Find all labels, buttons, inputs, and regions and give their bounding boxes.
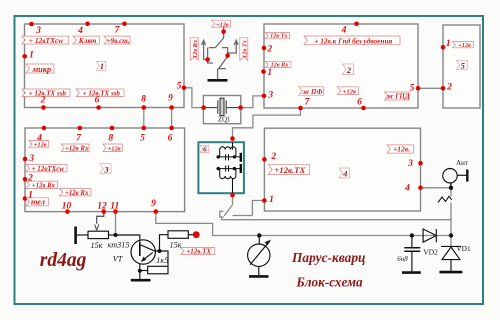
svg-text:2: 2	[40, 96, 46, 106]
svg-text:+12в Rx: +12в Rx	[32, 183, 56, 190]
svg-text:Парус-кварц: Парус-кварц	[291, 250, 366, 265]
switch +12v node dot	[221, 29, 226, 34]
svg-text:3: 3	[267, 90, 273, 100]
block3 pin 2 dot	[23, 177, 28, 182]
svg-text:12в Tx: 12в Tx	[270, 33, 287, 40]
svg-text:15к: 15к	[169, 240, 181, 249]
block2 pin 7 dot	[298, 106, 303, 111]
ZQ1 left node dot	[201, 105, 206, 110]
block1 pin 7 dot	[122, 22, 127, 27]
svg-text:2: 2	[270, 152, 276, 162]
svg-text:VD2: VD2	[423, 248, 438, 257]
meter stem top	[258, 236, 260, 245]
svg-text:5: 5	[461, 60, 466, 70]
transistor VT emitter stroke	[142, 252, 153, 261]
block4 pin 4 dot	[418, 186, 423, 191]
node emitter junction	[138, 269, 142, 273]
filter tank1 inductor L1	[220, 147, 236, 153]
meter ground bar	[249, 275, 269, 278]
svg-text:3: 3	[407, 159, 413, 169]
filter tank1 capacitor C1	[226, 154, 229, 160]
net label 12vTx rotated (switch right)	[240, 38, 248, 61]
svg-text:5: 5	[177, 82, 182, 92]
R1 left lead	[77, 234, 89, 236]
block6 top node dot	[230, 136, 235, 141]
diode VD1 cathode bar	[441, 245, 461, 247]
flag 2 (block2 number)	[343, 64, 354, 75]
block3 pin 10 dot	[65, 209, 70, 214]
net label +12v.TX (block4 pin2)	[268, 165, 309, 175]
R3 1k5 left lead	[140, 270, 148, 272]
svg-text:6: 6	[95, 96, 100, 106]
block3 pin 1 dot	[23, 196, 28, 201]
wire collector to R2	[160, 235, 169, 251]
svg-text:+ 12в.TX ssb: + 12в.TX ssb	[29, 89, 67, 97]
block3 pin 7 dot	[78, 126, 83, 131]
svg-text:ZQ1: ZQ1	[218, 117, 230, 124]
block3 pin 5 dot	[142, 126, 147, 131]
svg-text:3: 3	[35, 26, 41, 36]
net label zh PF (block2 pin7)	[299, 87, 324, 95]
flag 4 (block4 number)	[339, 168, 350, 178]
meter needle arrowhead	[265, 240, 271, 245]
block 2	[264, 24, 418, 108]
crystal ZQ1 body	[220, 98, 224, 115]
net label 12vRx rotated (switch left)	[190, 38, 198, 61]
relay switch S1 right connector arrow	[228, 40, 239, 53]
relay switch S1 right bracket	[222, 48, 228, 56]
filter tank1 bottom rail	[216, 156, 237, 158]
diode VD1 triangle	[442, 247, 460, 260]
net label +12vRx (block3 pin2)	[26, 181, 57, 188]
block1 pin 4 dot	[85, 22, 90, 27]
crystal ZQ1 left plate	[217, 100, 219, 114]
antenna stem down to VD1	[450, 183, 452, 246]
block 4	[264, 128, 420, 211]
diode VD2 cathode bar	[435, 229, 437, 242]
net label +12v.TXssb a (block1 pin2)	[22, 89, 70, 97]
svg-text:1: 1	[28, 191, 33, 201]
resistor R2 15k	[168, 231, 188, 239]
svg-text:кт315: кт315	[108, 241, 130, 250]
relay switch S1 blade 1	[215, 38, 223, 48]
wire ZQ1 right to block2 pin3	[241, 96, 264, 108]
svg-text:1к5: 1к5	[156, 256, 168, 265]
filter tank2 inductor L2	[220, 173, 236, 179]
block2 pin 5 dot	[416, 86, 421, 91]
filter tank2 leads	[220, 169, 236, 194]
svg-text:6: 6	[168, 134, 173, 144]
svg-text:2: 2	[446, 83, 452, 93]
net label +12v.TXssb b (block1 pin6)	[76, 89, 124, 97]
net label +12vTXcw (block3 pin3)	[26, 164, 67, 172]
ZQ1 right node dot	[238, 105, 243, 110]
block2 pin 3 dot	[262, 94, 267, 99]
transistor VT collector stroke	[140, 245, 160, 252]
filter node dot b	[233, 155, 236, 158]
svg-text:+ 12вTXcw: + 12вTXcw	[32, 165, 65, 173]
svg-text:Ключ: Ключ	[78, 37, 97, 45]
filter tank1 tap bar	[240, 153, 242, 162]
block1 pin 9 dot	[169, 105, 174, 110]
+12v TX big node dot	[193, 231, 200, 238]
relay switch S1 stem	[223, 28, 225, 39]
filter tank1 tap lead	[238, 156, 241, 158]
svg-text:15к: 15к	[90, 241, 102, 250]
wire pin11 down to base junction	[115, 212, 117, 235]
potentiometer wiper arrow	[95, 225, 99, 231]
net label +9v.st (block1 pin7)	[104, 36, 130, 44]
svg-text:4: 4	[404, 183, 410, 193]
svg-text:+12в Rx: +12в Rx	[65, 190, 89, 197]
svg-text:+ 12в.TX ssb: + 12в.TX ssb	[83, 89, 121, 97]
transistor VT emitter arrowhead	[141, 257, 146, 262]
svg-text:+ 12в.к Гпд без удвоения: + 12в.к Гпд без удвоения	[314, 36, 392, 45]
diode VD1 ground stem	[450, 260, 452, 271]
relay switch S1 ground stem	[217, 69, 219, 79]
crystal ZQ1 left lead	[204, 107, 217, 109]
svg-text:12в Rx: 12в Rx	[271, 61, 289, 68]
emitter ground bar	[131, 279, 151, 282]
terminal bar left of R1	[74, 227, 77, 245]
svg-text:6: 6	[357, 97, 362, 107]
svg-text:+9в.ст.: +9в.ст.	[107, 37, 130, 45]
antenna switch blade	[224, 205, 232, 216]
svg-text:+12в Rx: +12в Rx	[65, 146, 89, 153]
wire R3 to collector node	[160, 251, 169, 266]
svg-text:8: 8	[141, 95, 146, 105]
svg-text:6: 6	[203, 145, 207, 154]
svg-text:2: 2	[266, 45, 272, 55]
block1 pin 6 dot	[96, 105, 101, 110]
filter node dot c	[217, 167, 220, 170]
wire block1 pin5 to ZQ1 left	[184, 88, 203, 108]
filter tank2 capacitor C2	[226, 165, 229, 171]
transistor VT base bar	[139, 242, 141, 256]
block 5	[443, 25, 480, 108]
net label +12v (switch)	[212, 20, 231, 27]
base lead wire	[116, 235, 140, 242]
diode VD1 ground bar	[439, 271, 462, 274]
svg-text:11: 11	[110, 202, 119, 212]
svg-text:+12в: +12в	[343, 88, 356, 95]
ZQ1 box	[203, 96, 240, 124]
relay switch S1 blade 2	[219, 57, 228, 69]
node VD1 junction	[449, 233, 453, 237]
net label +12v (block2 pin6)	[337, 87, 358, 95]
filter node dot a	[217, 155, 220, 158]
svg-text:12в Rx: 12в Rx	[192, 39, 199, 58]
flag 5 (block5 number)	[456, 60, 467, 69]
svg-text:rd4ag: rd4ag	[40, 250, 87, 271]
resistor R3 1k5	[148, 266, 168, 274]
meter needle	[250, 242, 269, 265]
capacitor C3 6n8 stem top	[411, 236, 413, 248]
block5 pin 2 dot	[441, 86, 446, 91]
wire block2 pin7 to filter block6 top	[233, 108, 301, 142]
wire block1 pin8 to block3 pin5	[143, 108, 145, 129]
meter ground stem	[258, 266, 260, 275]
net label Kluch (block1 pin4)	[73, 36, 99, 44]
antenna circle	[443, 169, 457, 183]
block2 pin 2 dot	[262, 46, 267, 51]
filter tank2 tap lead	[238, 168, 241, 170]
svg-text:VT: VT	[113, 255, 124, 264]
svg-text:6н8: 6н8	[397, 255, 408, 263]
block3 pin 11 dot	[113, 209, 118, 214]
net label +12v (block3 pin4)	[29, 140, 48, 147]
block1 pin 3 dot	[29, 22, 34, 27]
filter node dot d	[233, 167, 236, 170]
net label zh GPD (block2 pin5)	[385, 92, 410, 100]
block1 pin 2 dot	[41, 105, 46, 110]
filter tank2 top rail	[216, 168, 237, 170]
svg-text:2: 2	[346, 65, 352, 75]
block3 pin 6 dot	[169, 126, 174, 131]
svg-text:VD1: VD1	[456, 244, 471, 253]
net label +12v (block3 pin8)	[103, 144, 122, 152]
wire block6 bottom to antenna switch blade	[232, 193, 234, 205]
net label tel (block3 pin1)	[26, 198, 48, 206]
node antenna junction	[449, 186, 453, 190]
net label +12vTXcw (block1 pin3)	[22, 36, 69, 44]
svg-text:5: 5	[140, 134, 145, 144]
svg-text:микр: микр	[31, 65, 51, 74]
emitter ground stem	[139, 271, 141, 279]
flag 1 (block1 number)	[96, 61, 106, 70]
crystal ZQ1 right lead	[227, 107, 241, 109]
resistor R1 15k	[88, 231, 109, 238]
flag 3 (block3 number)	[100, 164, 111, 174]
block 6 (bandpass filter box, teal)	[198, 142, 244, 193]
block5 pin 1 dot	[441, 45, 446, 50]
svg-text:10: 10	[62, 202, 72, 212]
block3 pin 3 dot	[23, 157, 28, 162]
net label 12vTx (block2 pin2)	[265, 33, 289, 39]
block1 pin 1 dot	[22, 54, 27, 59]
relay switch S1 left connector arrow	[202, 40, 208, 59]
svg-text:+12в: +12в	[458, 42, 471, 49]
transistor VT circle	[131, 240, 155, 264]
wire block2 pin5 to block5 pin2	[418, 87, 443, 89]
svg-text:3: 3	[28, 154, 34, 164]
node collector junction	[158, 249, 162, 253]
svg-text:+12в: +12в	[216, 21, 229, 28]
svg-text:9: 9	[168, 94, 173, 104]
wire block4 pin4 to antenna stem	[421, 187, 452, 189]
svg-text:Блок-схема: Блок-схема	[295, 275, 363, 290]
svg-text:1: 1	[100, 61, 104, 71]
svg-text:ж ГПД: ж ГПД	[387, 93, 410, 101]
wire switch to antenna line	[222, 217, 452, 220]
svg-text:тел: тел	[31, 198, 45, 207]
wire block4 pin1 to switch contact	[252, 201, 264, 216]
wire block3 pin9 to meter line	[156, 212, 451, 236]
block2 pin 1 dot	[261, 69, 266, 74]
svg-text:5: 5	[410, 84, 415, 94]
capacitor C3 stem bottom	[411, 252, 413, 272]
net label +12v.TX (bottom node)	[181, 248, 215, 255]
svg-text:+12в.TX: +12в.TX	[274, 165, 306, 175]
block4 pin 1 dot	[262, 198, 267, 203]
capacitor C3 plates	[404, 248, 420, 251]
block3 pin 8 dot	[110, 126, 115, 131]
net label +12v k Gpd bez udvoeniya (block2 pin4)	[304, 36, 400, 45]
svg-text:ж ПФ: ж ПФ	[303, 88, 323, 96]
svg-text:+12в.TX: +12в.TX	[186, 248, 211, 256]
svg-text:12: 12	[97, 202, 107, 212]
svg-text:4: 4	[341, 26, 347, 36]
svg-text:+12в: +12в	[108, 145, 121, 152]
antenna circle stem	[450, 183, 452, 188]
net label +12v. (block4 pin3)	[387, 145, 413, 153]
R1 right lead	[109, 234, 116, 236]
block1 pin 8 dot	[142, 105, 147, 110]
block1 pin 5 dot	[182, 86, 187, 91]
relay switch S1 left bracket	[208, 48, 213, 63]
antenna lead to bar	[457, 174, 467, 176]
node base junction	[114, 233, 118, 237]
block 3	[25, 128, 185, 212]
svg-text:+ 12вTXcw: + 12вTXcw	[29, 36, 63, 45]
capacitor C3 ground bar	[402, 271, 421, 274]
svg-text:12в Tx: 12в Tx	[241, 39, 248, 58]
block2 pin 4 dot	[354, 22, 359, 27]
antenna terminal bar	[466, 170, 468, 182]
block6 bottom node dot	[230, 193, 235, 198]
break squiggle on antenna wire	[438, 196, 452, 202]
block2 pin 6 dot	[361, 106, 366, 111]
relay switch S1 top-left contact line	[209, 47, 216, 49]
block4 pin 2 dot	[262, 157, 267, 162]
wire pin12 to potentiometer wiper	[97, 212, 104, 224]
R2 right lead	[188, 234, 193, 236]
net label mikr (block1 pin1)	[26, 64, 54, 73]
switch right contact dot	[225, 53, 230, 58]
block 1	[25, 24, 185, 108]
block3 pin 4 dot	[42, 126, 47, 131]
crystal ZQ1 right plate	[225, 100, 227, 114]
block3 pin 12 dot	[102, 209, 107, 214]
antenna switch fixed contact bar	[233, 215, 253, 217]
node capacitor junction	[410, 233, 414, 237]
node meter junction	[257, 233, 261, 237]
svg-text:3: 3	[103, 164, 109, 174]
antenna switch hook contact	[220, 211, 224, 217]
svg-text:9: 9	[151, 199, 156, 209]
net label 12vRx (block2 pin1)	[265, 61, 291, 67]
flag 6 (block6 number)	[200, 145, 209, 152]
svg-text:8: 8	[108, 134, 113, 144]
net label +12vRx (block3 mid)	[59, 189, 91, 196]
svg-text:Ант: Ант	[456, 159, 468, 167]
net label +12v (block5 pin1)	[453, 42, 474, 48]
meter PA1 circle	[248, 244, 270, 266]
relay switch ground	[208, 79, 228, 82]
svg-text:1: 1	[269, 195, 274, 205]
svg-text:2: 2	[27, 174, 33, 184]
net label +12vRx (block3 pin7)	[61, 144, 89, 152]
svg-text:1: 1	[29, 51, 34, 61]
block3 pin 9 dot	[154, 209, 159, 214]
wire block1 pin9 to block3 pin6	[171, 108, 173, 129]
emitter down lead	[139, 264, 141, 271]
svg-text:4: 4	[36, 134, 42, 144]
svg-text:4: 4	[342, 169, 347, 179]
block4 pin 3 dot	[418, 161, 423, 166]
svg-text:+12в.: +12в.	[393, 145, 410, 154]
svg-text:4: 4	[77, 26, 83, 36]
svg-text:1: 1	[267, 68, 272, 78]
svg-text:1: 1	[446, 39, 451, 49]
filter tank1 leads	[220, 142, 236, 157]
switch left contact dot	[205, 57, 210, 62]
diode VD2 triangle	[423, 229, 436, 242]
filter tank2 tap bar	[240, 164, 242, 173]
